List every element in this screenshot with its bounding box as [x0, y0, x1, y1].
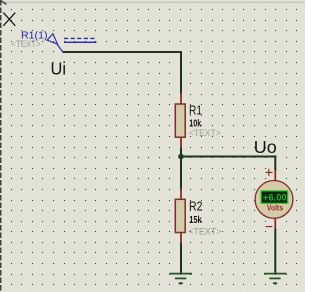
wire down to voltmeter — [274, 156, 276, 171]
wire voltmeter to ground — [274, 229, 276, 273]
ground (left) — [170, 274, 193, 284]
resistor R2 — [175, 189, 185, 244]
svg-text:+6.00: +6.00 — [263, 193, 287, 204]
ground (right) — [264, 274, 287, 284]
voltmeter (+6.00 Volts) — [255, 169, 293, 229]
wire R2 to ground — [180, 243, 182, 273]
svg-text:<TEXT>: <TEXT> — [188, 226, 221, 237]
svg-text:R2: R2 — [189, 198, 203, 213]
svg-text:<TEXT>: <TEXT> — [11, 39, 41, 50]
svg-text:Uo: Uo — [254, 137, 277, 157]
svg-text:15k: 15k — [189, 215, 202, 226]
junction node dot — [178, 154, 184, 160]
generator R1(1) (DC source terminal symbol) — [47, 34, 97, 52]
wire input vertical down to R1 — [180, 51, 182, 93]
svg-text:R1: R1 — [189, 102, 202, 117]
resistor R1 — [175, 93, 185, 147]
svg-text:<TEXT>: <TEXT> — [189, 128, 221, 139]
wire R1 to junction — [180, 148, 182, 157]
wire junction to R2 — [180, 157, 182, 189]
svg-text:Volts: Volts — [267, 203, 284, 212]
wire input horizontal — [63, 51, 183, 53]
wire junction to voltmeter (horizontal) — [181, 156, 276, 158]
svg-text:Ui: Ui — [51, 58, 67, 78]
